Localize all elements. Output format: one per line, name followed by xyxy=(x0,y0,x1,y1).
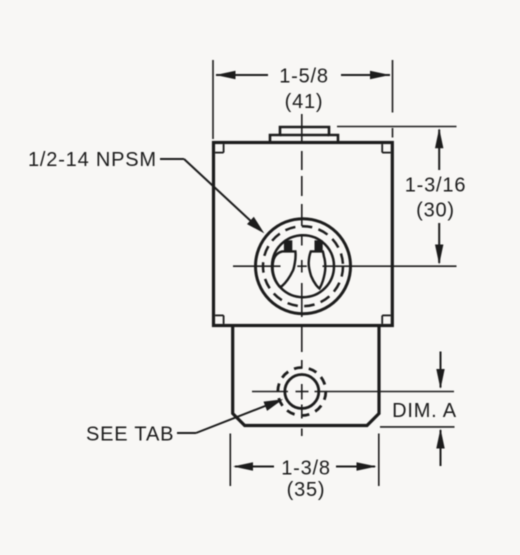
svg-text:1-5/8: 1-5/8 xyxy=(279,66,329,88)
svg-text:(35): (35) xyxy=(287,479,326,501)
svg-text:1-3/8: 1-3/8 xyxy=(281,458,331,480)
svg-text:(30): (30) xyxy=(416,200,455,222)
svg-text:(41): (41) xyxy=(285,91,324,113)
svg-text:1/2-14 NPSM: 1/2-14 NPSM xyxy=(28,149,157,171)
svg-text:DIM. A: DIM. A xyxy=(392,400,457,422)
svg-text:1-3/16: 1-3/16 xyxy=(405,175,467,197)
svg-text:SEE TAB: SEE TAB xyxy=(86,424,174,446)
